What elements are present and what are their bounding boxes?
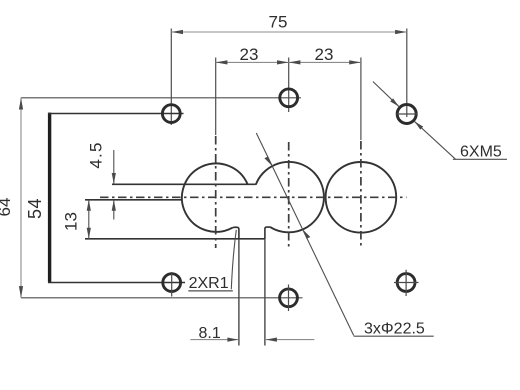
dimension 23 middle extension line [288, 58, 290, 113]
svg-text:3xΦ22.5: 3xΦ22.5 [364, 321, 425, 338]
bore circle middle (open at left) [256, 162, 324, 232]
label 6XM5 underline [453, 158, 507, 160]
svg-text:8.1: 8.1 [199, 325, 221, 342]
dimension 8.1 left segment [190, 339, 238, 341]
dimension 8.1 right segment [266, 339, 314, 341]
dimension 64 arrows [19, 98, 23, 110]
hole bottom-middle [280, 289, 298, 307]
dimension 8.1 extension line B [264, 239, 266, 345]
hole 6XM5 center mark horizontal [397, 113, 418, 115]
leader 6XM5 lower segment [414, 121, 455, 159]
dimension 13 line [88, 200, 90, 239]
hole bottom-right [397, 274, 415, 292]
dimension 75 extension line right [406, 29, 408, 118]
svg-text:75: 75 [269, 13, 288, 32]
svg-text:64: 64 [0, 198, 14, 217]
hole 6XM5 [397, 105, 416, 124]
slot bottom line [85, 199, 181, 201]
hole bottom-right center marks [394, 282, 419, 284]
dimension 4.5 upper tail and arrow [113, 150, 115, 184]
leader 6XM5 upper arrow [390, 98, 399, 106]
hole top-middle [280, 89, 298, 107]
svg-text:2XR1: 2XR1 [189, 275, 229, 292]
vertical centerline left circle [215, 136, 217, 248]
dimension 23 right line [289, 61, 361, 63]
part outline: top edge [48, 113, 184, 115]
leader 3xPhi22.5 line [256, 133, 353, 336]
vertical centerline right circle [360, 141, 362, 249]
slot top line [112, 183, 256, 185]
label 3xPhi22.5 underline [354, 335, 434, 337]
dimension 75 line [171, 31, 406, 33]
dimension 54 thick line [48, 113, 51, 283]
dimension 64 bottom extension line [21, 297, 303, 299]
svg-text:54: 54 [25, 198, 45, 219]
svg-text:23: 23 [315, 45, 334, 64]
hole bottom-middle center mark vertical [288, 285, 290, 312]
dimension 75 arrow left [171, 30, 183, 34]
notch left edge with R1 bump [233, 227, 239, 239]
horizontal centerline [100, 196, 407, 198]
leader 6XM5 lower arrow [414, 121, 423, 129]
dimension 64 top extension line [21, 97, 301, 99]
hole top-left [162, 105, 180, 123]
notch right edge with R1 bump [265, 227, 270, 239]
bore circle left (open at lower-right) [182, 163, 248, 231]
dimension 23 right extension line [360, 58, 362, 141]
lower edge line [85, 238, 265, 240]
vertical centerline middle circle [288, 142, 290, 247]
svg-text:23: 23 [240, 45, 259, 64]
hole bottom-left center mark vertical [171, 272, 173, 297]
leader 2XR1 line [231, 230, 236, 289]
dimension 75 extension line left [170, 29, 172, 126]
dimension 23 arrows [216, 60, 228, 64]
bore circle right [326, 162, 397, 233]
dimension 23 left extension line [215, 58, 217, 136]
svg-text:13: 13 [62, 212, 81, 231]
dimension 75 arrow right [395, 30, 407, 34]
svg-text:6XM5: 6XM5 [460, 143, 502, 160]
dimension 23 left line [216, 61, 289, 63]
dimension 8.1 extension line A [238, 239, 240, 345]
label 2XR1 underline [188, 290, 233, 292]
leader 6XM5 upper segment [373, 82, 399, 107]
dimension 64 line [20, 98, 22, 298]
dimension 4.5 lower tail and arrow [113, 200, 115, 220]
part outline: bottom edge [48, 282, 185, 284]
hole bottom-left [163, 274, 181, 292]
leader 3xPhi22.5 arrow upper [264, 156, 272, 166]
dimension 13 arrows [87, 200, 91, 211]
leader 3xPhi22.5 arrow lower [303, 229, 311, 239]
svg-text:4.5: 4.5 [87, 141, 106, 168]
